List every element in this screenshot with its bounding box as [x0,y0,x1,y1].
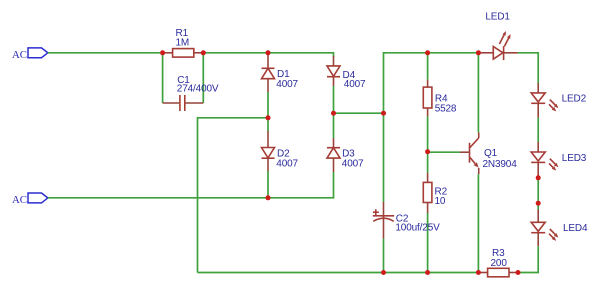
resistor R1 [163,28,204,57]
resistor R4 [423,80,457,117]
junction R1 right [201,50,206,55]
wire base node to Q1 base [428,151,460,153]
wire LED1 to LED2 [518,53,539,83]
transistor Q1 [460,132,517,174]
svg-text:5528: 5528 [435,103,457,114]
junction base node [425,149,430,154]
wire R4 top [427,53,429,80]
svg-text:LED4: LED4 [563,223,588,234]
wire D2 to AC2 [267,171,269,198]
junction C2 riser [381,111,386,116]
wire LED2 to LED3 [537,118,539,142]
wire R2 to bottom rail [427,213,429,273]
svg-text:Q1: Q1 [484,148,498,159]
wire D3 to DC+ midpoint [333,113,335,138]
wire D4 to DC+ midpoint [333,86,335,113]
diode D2 [262,131,299,171]
wire DC+ riser and top rail [384,53,479,113]
LED LED4 [531,210,588,247]
wire R4 to base node [427,116,429,151]
svg-text:LED1: LED1 [485,12,510,23]
junction D3-D4 midpoint [331,111,336,116]
junction D1 top [266,50,271,55]
wire AC1 to R1 [48,52,163,54]
wire emitter to bottom rail [477,174,479,272]
wire midpoint to D2 [267,118,269,131]
svg-text:4007: 4007 [344,79,366,90]
wire chain node 2 to LED4 [537,203,539,209]
diode D3 [327,138,364,172]
svg-text:4007: 4007 [342,159,364,170]
wire D1 to DC- midpoint [267,92,269,118]
svg-text:200: 200 [491,258,508,269]
svg-text:AC: AC [12,49,27,61]
wire base node to R2 [427,152,429,173]
wire C2 to bottom rail [383,239,385,273]
junction R1 left [160,50,165,55]
svg-text:LED3: LED3 [562,153,587,164]
junction R2 bottom [425,270,430,275]
LED LED1 [478,12,517,61]
wire DC- midpoint left and down [198,118,269,273]
diode D1 [262,53,299,92]
capacitor C2 [373,202,440,239]
wire R1 right to bridge, corner into D4 [203,53,333,57]
wire LED4 down to R3 [518,246,538,272]
junction chain node 1 [536,175,541,180]
port AC1 [12,48,48,61]
resistor R2 [423,173,447,213]
svg-text:2N3904: 2N3904 [483,159,518,170]
svg-text:4007: 4007 [276,159,298,170]
junction D1-D2 midpoint [266,115,271,120]
wire bottom rail [198,272,481,274]
svg-text:100uf/25V: 100uf/25V [395,222,440,233]
LED LED3 [531,142,587,178]
junction chain node 2 [536,201,541,206]
wire AC2 to D3 corner [48,172,334,198]
capacitor C1 [163,53,219,111]
junction C2 bottom [381,270,386,275]
wire riser to C2 [383,113,385,202]
diode D4 [327,56,366,90]
svg-text:LED2: LED2 [562,94,587,105]
wire collector to top rail [477,53,479,133]
svg-text:10: 10 [435,196,446,207]
svg-text:4007: 4007 [276,79,298,90]
junction R4 top [425,50,430,55]
svg-text:1M: 1M [176,38,190,49]
resistor R3 [480,248,518,277]
wire chain node 1 to node 2 [537,178,539,203]
port AC2 [12,193,48,206]
wire DC+ midpoint to riser [334,112,384,114]
svg-text:AC: AC [12,194,27,206]
svg-text:274/400V: 274/400V [177,84,219,95]
junction Q1 emitter [476,270,481,275]
junction R3 right [516,270,521,275]
junction collector / LED1 [476,50,481,55]
junction D2 bottom [266,195,271,200]
LED LED2 [531,83,586,118]
